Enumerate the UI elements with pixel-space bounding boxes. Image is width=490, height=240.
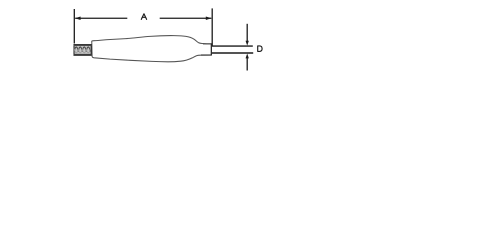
jaw bottom border inner shade <box>74 53 92 55</box>
dimension A: left extension line <box>73 9 75 44</box>
dimension A: line right segment <box>160 17 212 19</box>
boot nose bottom flat segment <box>201 54 211 56</box>
boot nose top flat segment <box>203 43 211 45</box>
boot end face <box>210 43 212 55</box>
label A <box>141 14 146 20</box>
jaw top border inner shade <box>74 45 92 47</box>
jaw (serrated gripping area) <box>74 45 91 56</box>
dimension A: right arrowhead <box>206 17 212 21</box>
dimension D: lower arrowhead (up) <box>246 54 249 59</box>
boot body (insulated clip handle) <box>92 36 212 62</box>
dimension A: left arrowhead <box>75 17 81 21</box>
dimension A: line left segment <box>75 17 127 19</box>
jaw serration secondary wave <box>74 49 90 53</box>
dimension D: upper arrow stem <box>246 24 248 42</box>
tube bottom line <box>212 52 254 54</box>
dimension D: lower arrow stem <box>246 57 248 71</box>
tube (barrel at rear) top line <box>212 45 253 47</box>
dimension A: right extension line <box>211 8 213 45</box>
jaw serration wave texture <box>74 47 90 52</box>
label D <box>258 46 262 52</box>
dimension D: upper arrowhead (down) <box>246 41 249 46</box>
